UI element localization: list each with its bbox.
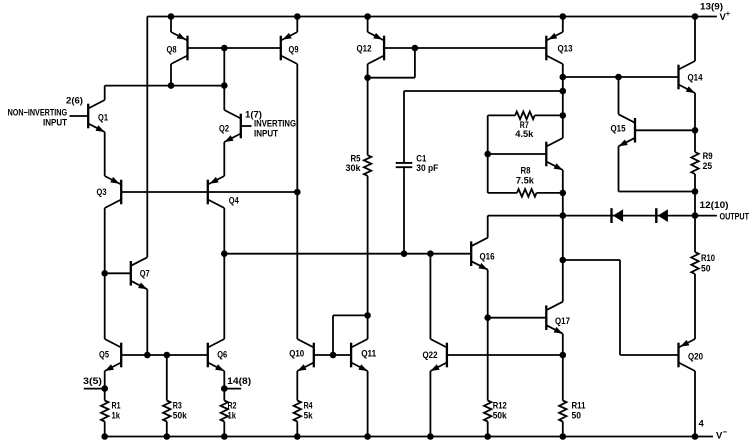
svg-text:1k: 1k [228, 410, 237, 421]
svg-text:Q11: Q11 [361, 349, 377, 360]
svg-text:OUTPUT: OUTPUT [720, 212, 750, 223]
svg-text:Q20: Q20 [688, 352, 703, 363]
svg-text:1k: 1k [112, 410, 121, 421]
svg-text:−: − [723, 428, 728, 437]
svg-text:4: 4 [699, 419, 705, 430]
svg-text:30 pF: 30 pF [416, 163, 438, 174]
svg-text:25: 25 [703, 161, 713, 172]
svg-text:50k: 50k [493, 410, 508, 421]
svg-text:5k: 5k [304, 410, 314, 421]
svg-text:13(9): 13(9) [700, 2, 723, 13]
svg-text:3(5): 3(5) [83, 376, 102, 387]
svg-text:Q5: Q5 [99, 350, 110, 361]
svg-text:4.5k: 4.5k [515, 129, 534, 140]
svg-text:Q13: Q13 [558, 44, 573, 55]
svg-text:Q16: Q16 [480, 251, 495, 262]
svg-text:50: 50 [572, 410, 582, 421]
svg-text:Q17: Q17 [555, 316, 570, 327]
svg-text:Q14: Q14 [688, 73, 704, 84]
svg-text:+: + [726, 9, 731, 18]
svg-text:Q7: Q7 [140, 268, 150, 279]
svg-text:Q9: Q9 [289, 44, 299, 55]
svg-text:Q1: Q1 [98, 112, 109, 123]
svg-text:INPUT: INPUT [254, 128, 278, 139]
svg-text:Q15: Q15 [611, 124, 627, 135]
svg-text:12(10): 12(10) [700, 200, 729, 211]
svg-text:50: 50 [701, 264, 711, 275]
svg-text:50k: 50k [173, 410, 188, 421]
svg-text:Q3: Q3 [97, 187, 107, 198]
svg-text:Q12: Q12 [357, 43, 372, 54]
svg-text:14(8): 14(8) [227, 376, 251, 387]
svg-text:Q22: Q22 [423, 350, 438, 361]
svg-text:7.5k: 7.5k [516, 175, 535, 186]
svg-text:Q10: Q10 [289, 349, 304, 360]
svg-text:INPUT: INPUT [43, 118, 67, 129]
svg-text:Q6: Q6 [217, 350, 227, 361]
svg-text:30k: 30k [346, 163, 362, 174]
svg-text:R10: R10 [701, 253, 715, 264]
svg-text:2(6): 2(6) [66, 96, 83, 107]
svg-text:Q8: Q8 [167, 44, 177, 55]
svg-text:Q4: Q4 [229, 195, 240, 206]
svg-text:Q2: Q2 [219, 123, 229, 134]
